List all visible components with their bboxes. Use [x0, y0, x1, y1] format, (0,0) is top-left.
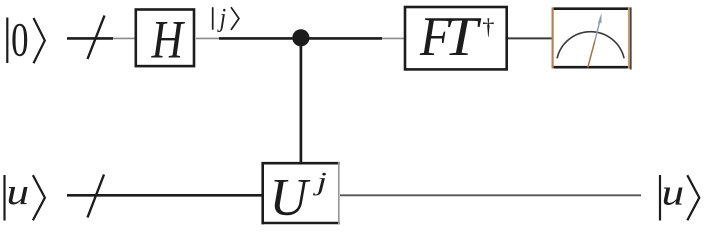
meter box [553, 7, 631, 69]
gate FT label [420, 18, 452, 55]
control dot [292, 29, 309, 46]
gate H label [151, 22, 185, 58]
wire bottom-right [340, 194, 641, 196]
ket |0> qubit label [7, 18, 45, 64]
gate U exponent j [313, 173, 326, 196]
wire FT to meter [508, 37, 552, 39]
gate U box [262, 162, 340, 224]
wire H to control gray segment [196, 37, 219, 39]
meter arc [557, 32, 624, 59]
meter needle arrowhead [598, 13, 602, 24]
meter needle upper segment [595, 18, 601, 41]
control vertical wire [300, 38, 303, 164]
ket |u> left qubit label [5, 175, 45, 221]
bundle slash top [88, 16, 105, 60]
gate H box [136, 10, 194, 67]
wire bottom-left [67, 194, 264, 197]
gate FT dagger superscript [483, 18, 494, 36]
wire control to FT gray segment [382, 37, 404, 39]
gate U label [274, 180, 310, 215]
ket |u> right state label [660, 175, 699, 221]
meter needle lower segment [588, 41, 595, 67]
gate FT box [405, 7, 507, 69]
bundle slash bottom [88, 175, 105, 218]
ket |j> node label [213, 7, 239, 32]
wire control to FT black segment [306, 37, 382, 40]
wire H to control black segment [219, 37, 296, 40]
gate FT label T [448, 18, 481, 55]
wire top-left black segment [67, 37, 113, 40]
wire top-left gray segment [113, 37, 135, 39]
